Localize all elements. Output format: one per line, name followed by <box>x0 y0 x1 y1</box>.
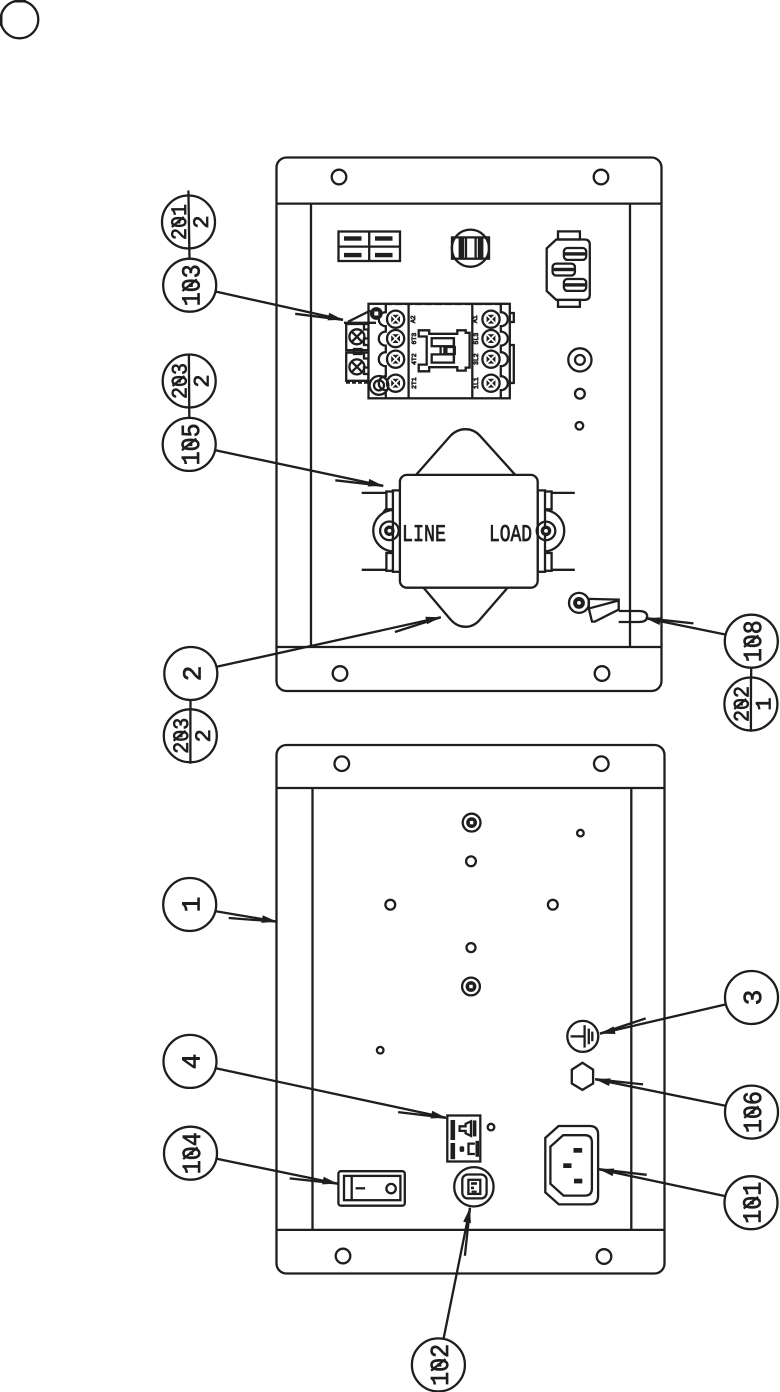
flange hole BL <box>336 1249 351 1264</box>
svg-text:LINE: LINE <box>402 522 446 549</box>
balloon 101 <box>725 1176 778 1229</box>
svg-text:4T2: 4T2 <box>411 353 418 365</box>
fuse holder F1 <box>452 230 489 267</box>
diamond plate <box>379 429 553 627</box>
svg-text:LOAD: LOAD <box>489 522 532 549</box>
balloon 104 <box>164 1127 217 1180</box>
cable clamp assembly (item 108) <box>569 593 647 622</box>
svg-text:3: 3 <box>739 990 769 1006</box>
balloon 202/1 <box>724 667 777 732</box>
left screws column <box>387 311 404 392</box>
leader 106 <box>595 1078 726 1106</box>
panel outline (bottom figure) <box>277 745 665 1274</box>
svg-text:2T1: 2T1 <box>411 377 418 389</box>
right screws column <box>482 311 499 392</box>
page corner circle <box>0 0 38 38</box>
svg-text:1L1: 1L1 <box>473 377 480 389</box>
flange hole TL <box>335 756 350 771</box>
svg-text:1: 1 <box>752 697 777 710</box>
pan screw right col 1 <box>568 348 591 371</box>
washer screw top center <box>463 814 481 832</box>
right bracket <box>544 510 565 552</box>
USB-B connector (item 102) <box>454 1167 493 1206</box>
right inner line <box>629 204 631 646</box>
leader 1 <box>216 911 277 923</box>
balloon 201/2 <box>162 191 215 259</box>
svg-text:1: 1 <box>177 897 207 913</box>
rocker switch (item 104) <box>338 1171 404 1206</box>
left screw <box>380 522 399 541</box>
EMI filter FL1 <box>362 429 575 627</box>
svg-text:106: 106 <box>739 1091 769 1133</box>
hole right mid <box>548 900 558 910</box>
small hole left lower <box>377 1047 384 1054</box>
wire stubs <box>362 492 387 494</box>
bottom-left ringed screw <box>370 376 389 395</box>
flange hole TL <box>332 170 347 185</box>
svg-text:2: 2 <box>192 729 217 742</box>
svg-text:108: 108 <box>739 620 769 662</box>
leader 101 <box>599 1169 726 1197</box>
svg-text:4: 4 <box>178 1054 208 1070</box>
leader 104 <box>217 1159 338 1185</box>
terminal labels right <box>472 315 480 389</box>
right screw <box>537 522 556 541</box>
balloon 108 <box>725 615 778 668</box>
power outlet J2 (top panel) <box>547 231 590 306</box>
flange hole BR <box>597 1249 612 1264</box>
flange hole BL <box>333 666 348 681</box>
terminal labels left <box>410 315 418 389</box>
balloon 102 <box>412 1338 465 1391</box>
leader 103 <box>216 292 377 323</box>
svg-text:A1: A1 <box>472 315 479 323</box>
svg-text:105: 105 <box>177 423 207 465</box>
small hole right of filter <box>576 422 584 430</box>
svg-text:103: 103 <box>177 264 207 306</box>
filter body <box>400 475 538 588</box>
ground stud (item 3) <box>567 1021 598 1052</box>
svg-text:5L3: 5L3 <box>473 333 480 345</box>
signal connector (item 4) <box>447 1116 480 1162</box>
small hole right col 2 <box>575 389 585 399</box>
balloon 105 <box>163 418 216 471</box>
left bracket <box>373 510 394 552</box>
leader 3 <box>600 1004 726 1034</box>
balloon 3 <box>725 971 778 1024</box>
leader 4 <box>216 1068 446 1118</box>
leader 108 <box>646 617 726 634</box>
hex hole (item 106) <box>572 1063 593 1090</box>
hole left mid <box>385 900 395 910</box>
leader 102 <box>444 1208 471 1339</box>
svg-text:6T3: 6T3 <box>411 333 418 345</box>
terminal block TB1 <box>339 232 401 262</box>
svg-text:102: 102 <box>426 1344 456 1386</box>
balloon 4 <box>164 1035 217 1088</box>
leader 105 <box>215 450 383 486</box>
screw seat scallops left <box>379 304 386 398</box>
hole center 2 <box>467 943 476 952</box>
svg-text:2: 2 <box>190 215 215 228</box>
flange hole BR <box>595 666 610 681</box>
balloon 203/2 <box>163 355 216 418</box>
inner dividers <box>407 304 409 398</box>
right edge tabs <box>510 313 514 322</box>
hatched top edge <box>385 303 505 305</box>
svg-text:104: 104 <box>178 1132 208 1174</box>
balloon 2 <box>164 647 217 700</box>
IEC inlet (item 101) <box>545 1126 598 1204</box>
svg-text:2: 2 <box>191 374 216 387</box>
hole center 1 <box>466 856 476 866</box>
svg-text:101: 101 <box>739 1182 769 1224</box>
leader 2 <box>217 617 441 667</box>
flange hole TR <box>594 756 609 771</box>
relay mechanism center <box>419 330 470 371</box>
top flange line <box>277 202 661 204</box>
small hole right upper <box>577 830 584 837</box>
black dot terminal top-left <box>370 307 383 320</box>
bottom flange line <box>277 646 661 648</box>
screw seat scallops right <box>501 304 508 398</box>
balloon 203/2 lower <box>164 700 217 764</box>
washer screw center lower <box>462 978 480 996</box>
left attachment terminal <box>346 324 368 383</box>
panel outline (top figure) <box>277 158 662 692</box>
balloon 106 <box>725 1086 778 1139</box>
flange hole TR <box>594 170 609 185</box>
small hole right of connector <box>488 1124 495 1131</box>
balloon 1 <box>163 878 216 931</box>
svg-text:3L2: 3L2 <box>473 353 480 365</box>
svg-text:2: 2 <box>179 666 209 682</box>
balloon 103 <box>163 259 216 312</box>
contactor K1 <box>346 304 514 399</box>
left inner line <box>310 204 312 646</box>
svg-text:A2: A2 <box>410 315 417 323</box>
